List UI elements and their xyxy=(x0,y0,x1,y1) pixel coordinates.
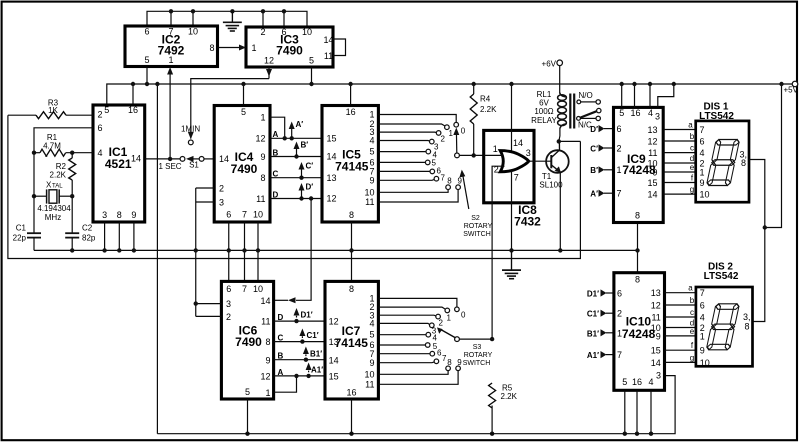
svg-text:5: 5 xyxy=(619,108,624,118)
resistor R5 2.2K xyxy=(489,383,518,436)
svg-text:16: 16 xyxy=(630,108,640,118)
svg-text:3: 3 xyxy=(219,197,224,207)
svg-text:0: 0 xyxy=(461,127,466,136)
svg-text:A1′: A1′ xyxy=(587,351,599,360)
svg-text:2.2K: 2.2K xyxy=(501,392,518,401)
wire: row D1 IC6 pin11 to IC7 pin12 xyxy=(274,320,325,322)
svg-text:11: 11 xyxy=(365,379,374,389)
IC9 74248 xyxy=(614,107,664,222)
wire: +5V right drop from bus xyxy=(765,84,782,228)
wire: +6V to relay coil xyxy=(559,66,561,93)
svg-text:74145: 74145 xyxy=(335,159,369,173)
svg-text:4: 4 xyxy=(648,108,653,118)
svg-text:14: 14 xyxy=(327,152,337,162)
wire S2 contact 3 from IC5 pin4 xyxy=(378,140,429,143)
wire: S2 pole to IC8 pin1 xyxy=(459,154,483,156)
svg-text:6: 6 xyxy=(226,284,231,294)
svg-text:8: 8 xyxy=(260,173,265,183)
svg-text:11: 11 xyxy=(365,197,374,207)
wire: IC9 pin4 to bus xyxy=(649,84,651,107)
wire: IC8 pin1 input xyxy=(484,154,504,156)
svg-text:4: 4 xyxy=(700,313,705,323)
node B1' input to IC10 pin1 xyxy=(587,329,614,338)
svg-text:10: 10 xyxy=(188,26,198,36)
svg-text:10: 10 xyxy=(364,187,374,197)
junction on top bus at ground stem xyxy=(230,9,234,13)
svg-text:1: 1 xyxy=(617,165,622,175)
wire: feedback bus y258.5 from R3 across to relay xyxy=(8,115,581,258)
node C' input to IC9 pin2 xyxy=(590,144,613,153)
switch S1 and 1 SEC wire: IC1 pin14 to IC4 pin14 xyxy=(145,156,215,171)
svg-text:1: 1 xyxy=(700,168,705,178)
capacitor C1 22p xyxy=(13,224,41,251)
svg-text:3,: 3, xyxy=(743,312,751,322)
svg-text:11: 11 xyxy=(324,51,333,61)
svg-text:15: 15 xyxy=(327,133,337,143)
svg-text:14: 14 xyxy=(323,35,333,45)
wire S2 contact 1 from IC5 pin2 xyxy=(378,124,444,126)
svg-text:B′: B′ xyxy=(590,166,598,175)
wire: IC9 pin5 to bus xyxy=(621,84,623,107)
svg-text:1: 1 xyxy=(493,144,498,154)
svg-text:3: 3 xyxy=(656,371,661,381)
svg-text:8: 8 xyxy=(349,210,354,220)
relay core bars xyxy=(569,94,571,129)
IC6 7490 xyxy=(221,281,273,399)
wire: coil bottom to collector junction and feedback line xyxy=(559,128,560,141)
svg-text:7: 7 xyxy=(617,189,622,199)
node C' arrow xyxy=(301,166,303,178)
capacitor C2 82p xyxy=(65,224,96,251)
relay armature xyxy=(577,108,601,120)
resistor R2 2.2K (vertical) xyxy=(50,153,76,234)
node C1' dashed arrow xyxy=(301,333,303,342)
wire: row B1 IC6 pin9 to IC7 pin14 xyxy=(274,359,325,361)
wire: IC3 pin12 output down-arrow then left xyxy=(268,67,270,79)
wire: row C IC4 pin8 to IC5 pin13 xyxy=(270,177,322,179)
wire: IC7 pin16 to bottom bus xyxy=(351,399,353,434)
svg-text:1: 1 xyxy=(252,43,257,53)
wire: row D IC4 pin11 to IC5 pin12 xyxy=(270,198,322,200)
wire: IC9 pin16 to bus xyxy=(634,84,636,107)
svg-text:1: 1 xyxy=(265,388,270,398)
svg-text:9: 9 xyxy=(652,168,657,178)
svg-text:4: 4 xyxy=(700,148,705,158)
svg-text:13: 13 xyxy=(651,288,661,298)
svg-text:11: 11 xyxy=(261,317,270,327)
svg-text:12: 12 xyxy=(264,56,274,66)
node B' input to IC9 pin1 xyxy=(590,166,613,175)
wire S2 contact 2 from IC5 pin3 xyxy=(378,131,436,133)
svg-text:7: 7 xyxy=(700,288,705,298)
svg-text:6: 6 xyxy=(617,124,622,134)
wire: IC5 pin8 through ground bus to IC7 pin8 xyxy=(351,222,353,281)
svg-text:7432: 7432 xyxy=(514,215,541,229)
svg-text:4521: 4521 xyxy=(105,157,132,171)
svg-text:7: 7 xyxy=(700,125,705,135)
wire S3 contact 3 from IC7 pin4 xyxy=(378,323,429,324)
wire: IC4 pin5 stub to bus xyxy=(243,84,245,106)
relay N/C contact xyxy=(578,116,600,129)
wire S2 contact 9 from IC5 pin11 xyxy=(378,190,458,203)
svg-text:16: 16 xyxy=(128,105,138,115)
svg-text:b: b xyxy=(690,296,695,305)
svg-text:A1′: A1′ xyxy=(311,366,323,375)
wire: IC1 pin6 to xtal column xyxy=(34,128,93,233)
wire: row C1 IC6 pin8 to IC7 pin13 xyxy=(274,341,325,343)
rotary switch S3 contacts from IC7 outputs xyxy=(378,298,494,384)
svg-text:1: 1 xyxy=(447,314,452,323)
svg-text:14: 14 xyxy=(219,154,229,164)
svg-text:16: 16 xyxy=(346,388,356,398)
svg-text:12: 12 xyxy=(255,134,265,144)
resistor R1 4.7M xyxy=(32,133,93,156)
svg-text:14: 14 xyxy=(131,153,141,163)
svg-text:C1′: C1′ xyxy=(307,331,319,340)
svg-text:2: 2 xyxy=(226,312,231,322)
wire S3 contact 8 from IC7 pin10 xyxy=(378,371,448,375)
ground (below IC8) xyxy=(502,250,521,278)
svg-text:C′: C′ xyxy=(306,162,314,171)
svg-text:8: 8 xyxy=(265,337,270,347)
svg-text:12: 12 xyxy=(329,317,339,327)
svg-text:9: 9 xyxy=(457,358,462,367)
7-segment digit of DIS1 xyxy=(706,140,739,186)
svg-text:3: 3 xyxy=(655,112,660,122)
wire S2 contact 0 from IC5 pin1 xyxy=(378,115,456,123)
wire S3 contact 2 from IC7 pin3 xyxy=(378,314,436,317)
svg-text:SL100: SL100 xyxy=(539,180,563,189)
svg-text:7490: 7490 xyxy=(231,162,258,176)
svg-text:3: 3 xyxy=(102,210,107,220)
wire: IC1 pin8 to ground bus xyxy=(118,222,120,250)
svg-text:TAL: TAL xyxy=(52,184,63,190)
node B' arrow xyxy=(296,146,298,157)
svg-text:6: 6 xyxy=(226,210,231,220)
svg-text:C: C xyxy=(278,334,284,343)
wire: top bus to IC2/IC3 reset pins xyxy=(147,11,307,27)
svg-text:8: 8 xyxy=(447,358,452,367)
wire: IC9 pin3 to bus xyxy=(658,84,674,107)
wire: bottom bus y433.7 xyxy=(157,376,675,434)
svg-text:7490: 7490 xyxy=(276,44,303,58)
svg-text:8: 8 xyxy=(349,284,354,294)
svg-text:C2: C2 xyxy=(82,224,93,233)
svg-text:5: 5 xyxy=(369,329,374,339)
svg-text:11: 11 xyxy=(648,148,657,158)
wire S3 contact 9 from IC7 pin11 xyxy=(378,371,458,385)
svg-text:0: 0 xyxy=(461,311,466,320)
svg-text:5: 5 xyxy=(245,387,250,397)
svg-text:10: 10 xyxy=(700,358,710,368)
svg-text:d: d xyxy=(690,154,694,163)
svg-text:10: 10 xyxy=(302,27,312,37)
svg-text:14: 14 xyxy=(329,355,339,365)
wire: IC4 pin1 loop to row A xyxy=(270,117,285,138)
svg-text:5: 5 xyxy=(622,377,627,387)
svg-text:A′: A′ xyxy=(590,190,598,199)
svg-text:1MIN: 1MIN xyxy=(181,125,200,134)
S3 pole and wiper arm with arrow xyxy=(455,337,460,342)
node D1' dashed arrow xyxy=(296,313,298,322)
ground (top, near IC2/IC3) xyxy=(223,11,242,31)
svg-text:c: c xyxy=(690,144,694,153)
wire S3 contact 1 from IC7 pin2 xyxy=(378,307,445,309)
wire: IC8 pin3 output to T1 base xyxy=(529,160,552,162)
rotary switch S2 contacts from IC5 outputs xyxy=(378,115,492,239)
7-segment digit of DIS2 xyxy=(706,304,739,350)
node D1' input to IC10 pin6 xyxy=(587,289,614,298)
svg-text:13: 13 xyxy=(329,337,339,347)
wire: IC3 pin6 stub xyxy=(283,11,285,27)
svg-text:7: 7 xyxy=(242,210,247,220)
wire S2 contact 7 from IC5 pin9 xyxy=(378,179,434,180)
wire: row D down to IC6 pin14 with arrow xyxy=(296,199,311,301)
svg-text:2.2K: 2.2K xyxy=(480,105,497,114)
wire S2 contact 6 from IC5 pin7 xyxy=(378,170,430,172)
svg-text:D: D xyxy=(278,313,284,322)
svg-text:D′: D′ xyxy=(306,183,314,192)
wires IC10 to DIS2 segments a-g xyxy=(665,284,696,363)
wire: ground bus y250.4 xyxy=(34,249,638,251)
svg-text:8: 8 xyxy=(635,275,640,285)
IC7 74145 xyxy=(325,281,378,399)
wire: S3 pole to R5/IC8 pin2 junction xyxy=(459,338,492,340)
svg-text:B′: B′ xyxy=(301,141,309,150)
svg-text:1: 1 xyxy=(168,55,173,65)
svg-text:14: 14 xyxy=(260,296,270,306)
wire: IC6 pin3 stub to ground vertical xyxy=(196,303,222,305)
wire S3 contact 0 from IC7 pin1 xyxy=(378,298,457,307)
svg-text:N/O: N/O xyxy=(579,91,593,100)
svg-text:9: 9 xyxy=(265,355,270,365)
node A1' input to IC10 pin7 xyxy=(587,351,614,360)
svg-text:A: A xyxy=(273,130,279,139)
svg-text:16: 16 xyxy=(632,377,642,387)
svg-text:74145: 74145 xyxy=(335,336,369,350)
svg-text:9: 9 xyxy=(131,210,136,220)
svg-text:8: 8 xyxy=(741,158,746,168)
node A' input to IC9 pin7 xyxy=(590,190,613,199)
node +6V terminal xyxy=(557,60,563,66)
svg-text:LTS542: LTS542 xyxy=(704,271,739,282)
wire: IC2 pin5 stub xyxy=(146,67,148,85)
svg-text:2: 2 xyxy=(98,110,103,120)
svg-text:15: 15 xyxy=(329,372,339,382)
svg-text:1: 1 xyxy=(617,328,622,338)
wire: IC8 pin7 to ground xyxy=(511,170,513,250)
op-amp gate U8A (OR gate 7432) xyxy=(493,144,531,182)
wire: row A IC4 pin12 to IC5 pin15 xyxy=(270,137,322,139)
wire: IC8 pin14 to +5V bus xyxy=(511,84,513,152)
svg-text:5: 5 xyxy=(309,56,314,66)
svg-text:MHz: MHz xyxy=(45,213,61,222)
svg-text:ROTARY: ROTARY xyxy=(464,352,493,359)
resistor R3 1K xyxy=(8,99,93,119)
svg-text:9: 9 xyxy=(369,175,374,185)
wire: IC2 pin8 to IC3 pin1 with arrow xyxy=(218,47,246,49)
node C1' input to IC10 pin2 xyxy=(587,310,614,319)
svg-text:1 SEC: 1 SEC xyxy=(158,162,181,171)
svg-text:8: 8 xyxy=(447,176,452,185)
crystal XTAL 4.194304 MHz xyxy=(32,181,75,223)
svg-text:D1′: D1′ xyxy=(587,290,599,299)
svg-text:C1: C1 xyxy=(16,224,27,233)
svg-text:D′: D′ xyxy=(590,125,598,134)
wire: IC1 pin16 stub xyxy=(132,84,134,105)
wire: ground bus tee to IC9 pin8 and IC10 pin8 xyxy=(637,223,639,273)
svg-text:8: 8 xyxy=(635,211,640,221)
wire: IC3 pin5 stub to bus xyxy=(311,67,313,84)
wire: IC6 pin2 stub xyxy=(196,315,222,317)
svg-text:4: 4 xyxy=(369,136,374,146)
svg-text:5: 5 xyxy=(241,107,246,117)
node D' arrow xyxy=(301,187,303,199)
svg-text:12: 12 xyxy=(260,372,270,382)
svg-text:16: 16 xyxy=(346,107,356,117)
svg-text:7: 7 xyxy=(514,172,519,182)
svg-text:2: 2 xyxy=(260,27,265,37)
svg-text:9: 9 xyxy=(656,331,661,341)
wire: IC10 pin16 to bottom bus xyxy=(636,390,638,433)
svg-text:11: 11 xyxy=(256,194,265,204)
svg-text:13: 13 xyxy=(647,125,657,135)
IC4 7490 xyxy=(214,106,270,223)
svg-text:8: 8 xyxy=(745,322,750,332)
wire S2 contact 8 from IC5 pin10 xyxy=(378,190,448,193)
svg-text:12: 12 xyxy=(647,137,657,147)
IC3 7490 xyxy=(246,27,334,67)
svg-text:c: c xyxy=(690,308,694,317)
node A' arrow xyxy=(291,126,293,139)
wire: IC2 pin1 vertical from S1 junction, arrow up into pin1 xyxy=(169,69,171,159)
svg-text:6: 6 xyxy=(144,26,149,36)
svg-text:3: 3 xyxy=(226,299,231,309)
svg-text:e: e xyxy=(690,163,695,172)
svg-text:1: 1 xyxy=(449,129,454,138)
svg-text:A′: A′ xyxy=(296,120,304,129)
svg-text:C1′: C1′ xyxy=(587,310,599,319)
svg-text:2: 2 xyxy=(439,318,444,327)
junction on top bus at IC3 pin2 xyxy=(261,9,265,13)
svg-text:1: 1 xyxy=(369,110,374,120)
wire: IC4 pin6 through ground bus to IC6 pin6 xyxy=(228,222,230,281)
svg-text:12: 12 xyxy=(651,301,661,311)
svg-text:14: 14 xyxy=(647,190,657,200)
svg-text:100Ω: 100Ω xyxy=(534,107,553,116)
relay RL1 coil xyxy=(531,90,566,128)
svg-text:6: 6 xyxy=(98,123,103,133)
svg-text:S3: S3 xyxy=(473,344,482,351)
svg-text:1: 1 xyxy=(700,331,705,341)
S2 label with pointer arrow xyxy=(463,174,469,210)
svg-text:g: g xyxy=(690,353,694,362)
svg-text:7: 7 xyxy=(441,174,446,183)
wire: IC4 pins 2,3 to ground vertical x195.75 xyxy=(196,187,214,189)
svg-text:3: 3 xyxy=(526,148,531,158)
IC8 7432 xyxy=(484,130,541,228)
wire: +5V bus y84 across schematic xyxy=(107,84,795,105)
wire S3 contact 7 from IC7 pin9 xyxy=(378,361,434,364)
svg-text:RELAY: RELAY xyxy=(531,116,557,125)
svg-text:2: 2 xyxy=(617,144,622,154)
wire: row A1 IC6 pin12 to IC7 pin15 xyxy=(274,375,325,377)
svg-text:6: 6 xyxy=(700,137,705,147)
svg-text:8: 8 xyxy=(209,43,214,53)
svg-text:g: g xyxy=(690,185,694,194)
wire: IC10 pin5 to bottom bus xyxy=(624,390,626,433)
svg-text:15: 15 xyxy=(651,346,661,356)
svg-text:SWITCH: SWITCH xyxy=(463,231,491,238)
display DIS 2 LTS542 xyxy=(696,261,753,368)
svg-text:C: C xyxy=(273,170,279,179)
svg-text:7490: 7490 xyxy=(235,335,262,349)
junction on top bus at IC2 pin10 xyxy=(191,9,195,13)
svg-text:b: b xyxy=(690,132,695,141)
wire: IC3 pin14-pin11 feedback bracket xyxy=(333,39,346,56)
svg-text:5: 5 xyxy=(369,147,374,157)
svg-text:B1′: B1′ xyxy=(587,329,599,338)
svg-text:C′: C′ xyxy=(590,144,598,153)
svg-text:7: 7 xyxy=(168,26,173,36)
svg-text:22p: 22p xyxy=(13,234,27,243)
resistor R4 2.2K xyxy=(470,82,497,156)
IC1 4521 xyxy=(93,105,145,222)
svg-text:12: 12 xyxy=(327,194,337,204)
transistor Q1 T1 SL100 xyxy=(539,141,568,189)
svg-text:1K: 1K xyxy=(48,106,58,115)
svg-text:LTS542: LTS542 xyxy=(699,111,734,122)
svg-text:7: 7 xyxy=(242,284,247,294)
wire: IC1 pin3 to ground bus xyxy=(104,222,106,250)
svg-text:D: D xyxy=(273,190,279,199)
svg-text:5: 5 xyxy=(144,55,149,65)
wire S2 contact 4 from IC5 pin5 xyxy=(378,151,426,153)
node +5V terminal xyxy=(792,81,798,87)
svg-text:9: 9 xyxy=(369,358,374,368)
svg-text:A: A xyxy=(278,368,284,377)
svg-text:11: 11 xyxy=(651,313,660,323)
svg-text:13: 13 xyxy=(327,173,337,183)
wire: IC2 pin7 stub xyxy=(170,11,172,26)
svg-text:9: 9 xyxy=(700,178,705,188)
junction on top bus at IC2 pin7 xyxy=(169,9,173,13)
wire: vertical feeder x157 from bus y84 to bottom bus xyxy=(156,84,158,434)
svg-text:2: 2 xyxy=(617,309,622,319)
svg-text:D1′: D1′ xyxy=(301,311,313,320)
wire: IC4 pin10 through ground bus to IC6 pin10 xyxy=(257,222,259,281)
svg-text:B1′: B1′ xyxy=(310,350,322,359)
svg-text:6: 6 xyxy=(281,27,286,37)
svg-text:1: 1 xyxy=(260,113,265,123)
IC5 74145 xyxy=(322,106,378,223)
node D' input to IC9 pin6 xyxy=(590,125,613,134)
svg-text:9: 9 xyxy=(260,152,265,162)
wire S3 contact 6 from IC7 pin7 xyxy=(378,353,430,355)
wire: IC6 pin5 to bottom bus xyxy=(247,399,249,434)
wire: IC10 pin4 to bottom bus xyxy=(650,390,652,433)
wire: drop down to DIS2 common anode 3,8 xyxy=(753,228,765,322)
svg-text:4: 4 xyxy=(648,377,653,387)
svg-text:6: 6 xyxy=(700,301,705,311)
svg-text:+6V: +6V xyxy=(542,60,557,69)
svg-text:4.7M: 4.7M xyxy=(43,141,61,150)
svg-text:82p: 82p xyxy=(82,234,96,243)
svg-text:R4: R4 xyxy=(480,95,491,104)
svg-text:7: 7 xyxy=(442,354,447,363)
svg-text:4: 4 xyxy=(369,319,374,329)
svg-text:10: 10 xyxy=(253,284,263,294)
